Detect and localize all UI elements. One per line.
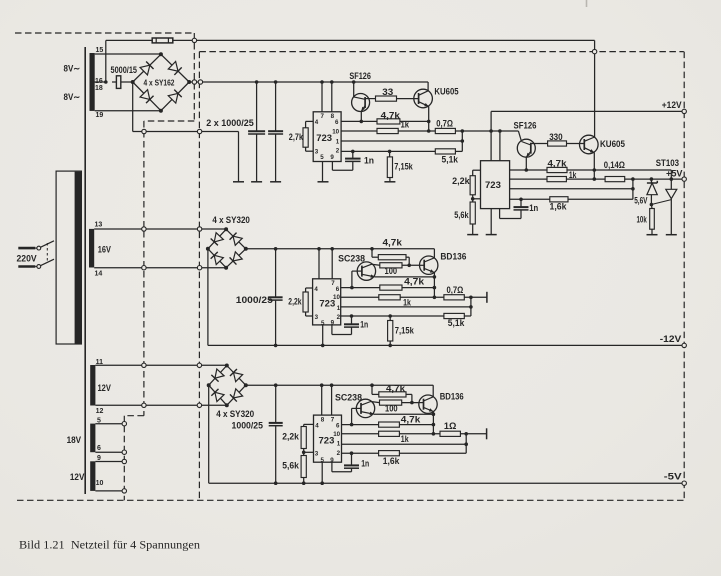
- resistor R26 100: [371, 400, 402, 405]
- svg-text:15: 15: [96, 47, 104, 54]
- wire +12V branch: [491, 111, 684, 131]
- wire U2 sense line: [510, 179, 635, 191]
- wire U1 pin4 left: [306, 121, 314, 127]
- wire U2 pin10 line: [510, 178, 547, 180]
- svg-text:SC238: SC238: [338, 254, 365, 264]
- wire tap 19 to bridge: [95, 110, 161, 112]
- label 4,7k R28: [401, 415, 421, 425]
- svg-text:4,7k: 4,7k: [401, 415, 421, 425]
- svg-text:4 x SY320: 4 x SY320: [212, 215, 250, 225]
- svg-text:4,7k: 4,7k: [381, 111, 400, 121]
- wire 1k to 1ohm: [399, 433, 440, 435]
- print artifact mark: [586, 0, 588, 7]
- wire 1.6k corner up D: [399, 434, 466, 453]
- capacitor C3 1n: [345, 150, 361, 162]
- svg-text:18V: 18V: [67, 435, 82, 445]
- resistor R10 330: [548, 141, 567, 146]
- svg-text:2,2k: 2,2k: [288, 297, 301, 307]
- transistor Q5 SC238: [352, 262, 376, 288]
- bridge 2 diode D8: [230, 252, 243, 265]
- transistor Q2 KU605: [397, 82, 433, 122]
- label 12V winding: [98, 383, 112, 393]
- bridge 1 diode D3 (left-bottom edge): [140, 90, 153, 103]
- resistor R22 5.1k: [444, 313, 464, 318]
- resistor R2 33: [376, 96, 397, 101]
- label 18V: [67, 435, 82, 445]
- connector circle tap9: [122, 459, 126, 463]
- svg-text:14: 14: [95, 271, 103, 278]
- resistor R21 0.7ohm: [444, 295, 464, 300]
- switch coupling dashed link: [46, 243, 48, 263]
- label 0,14&#937; R13: [604, 160, 625, 170]
- resistor R15 10k: [650, 205, 655, 235]
- svg-text:1000/25: 1000/25: [236, 295, 273, 305]
- wire minus rail section1: [133, 131, 239, 133]
- wire minus rail to common: [238, 132, 240, 182]
- resistor R12 1k: [547, 177, 566, 182]
- svg-text:7: 7: [331, 280, 335, 287]
- svg-text:1k: 1k: [401, 120, 410, 130]
- resistor R6 5.1k: [435, 149, 455, 154]
- wire R27 drop to base: [406, 394, 414, 404]
- label tap 5: [97, 417, 101, 424]
- capacitor C8 1n: [344, 451, 359, 468]
- wire U3 pin1 line: [341, 305, 473, 309]
- label -5V: [664, 472, 682, 482]
- wire R18 drop to base: [406, 257, 411, 267]
- label 1,6k R14: [550, 202, 567, 212]
- wire fuse line left: [106, 39, 152, 41]
- label tap 11: [96, 359, 104, 366]
- svg-text:5,1k: 5,1k: [448, 318, 465, 328]
- label +5V: [666, 168, 683, 178]
- svg-text:8: 8: [331, 113, 335, 120]
- wire bridge2 plus drop: [207, 249, 209, 346]
- svg-text:100: 100: [385, 404, 398, 414]
- label 330 R10: [549, 132, 563, 142]
- bridge rectifier 2 4xSY320 frame: [206, 227, 248, 269]
- resistor R20 1k: [379, 295, 400, 300]
- wire output line reg A: [455, 129, 518, 133]
- svg-text:1: 1: [337, 441, 341, 448]
- secondary winding 12V-2 bar: [90, 461, 95, 491]
- wire U4 pin4 left: [304, 424, 314, 426]
- 220V input stubs: [18, 248, 35, 266]
- label SC238 Q5: [338, 254, 365, 264]
- label 5,6k R25: [282, 461, 299, 471]
- svg-text:6: 6: [336, 286, 340, 293]
- wire U2 pin4 left: [473, 170, 481, 176]
- svg-text:4 x SY320: 4 x SY320: [216, 409, 254, 419]
- resistor R14 1.6k: [550, 197, 568, 202]
- wire 1k to 0.7ohm: [398, 130, 435, 132]
- resistor R16 2.2k: [303, 292, 308, 312]
- svg-text:0,14Ω: 0,14Ω: [604, 160, 625, 170]
- wire 4.7k top feed L 3: [372, 385, 379, 394]
- common T-bar R7: [384, 181, 395, 183]
- svg-text:8V∼: 8V∼: [64, 92, 81, 102]
- label 33: [382, 87, 393, 97]
- bridge rectifier 3 4xSY320 frame: [207, 364, 248, 408]
- wire -5V rail: [209, 481, 685, 485]
- capacitor C1 1000/25: [248, 80, 265, 182]
- feedthrough circles tap12: [142, 403, 202, 407]
- svg-text:723: 723: [485, 180, 501, 191]
- wire IC4 supply pins: [322, 385, 332, 415]
- wire tap 15 to bridge: [95, 53, 161, 55]
- wire U3 pin9 hook: [332, 325, 352, 335]
- capacitor C5 1000/25: [269, 249, 283, 347]
- connector circle tap6: [122, 450, 126, 454]
- wire tap 9: [95, 461, 124, 463]
- wire U4 pin5 ground: [321, 462, 323, 483]
- label U3 723: [319, 299, 335, 310]
- label +12V: [662, 100, 682, 110]
- resistor R25 5.6k: [301, 452, 306, 483]
- resistor R1 2.7k: [303, 128, 308, 147]
- svg-text:2,2k: 2,2k: [282, 432, 299, 442]
- label 4,7k R19: [404, 277, 424, 287]
- resistor R24 2.2k: [301, 427, 306, 449]
- label tap 13: [95, 222, 103, 229]
- feedthrough circles plus rail: [192, 80, 202, 84]
- wire 4.7k top feed L: [372, 249, 378, 257]
- capacitor C6 1n: [344, 314, 359, 327]
- wire IC1 pin8 supply: [330, 80, 334, 112]
- fuse F1: [152, 38, 173, 43]
- svg-text:10: 10: [333, 294, 340, 301]
- resistor R28 4.7k: [379, 422, 400, 427]
- label 2,2k R24: [282, 432, 299, 442]
- wire base node to Q6: [402, 264, 420, 266]
- bridge 1 diode D4 (bottom-right edge): [168, 90, 181, 103]
- svg-text:13: 13: [95, 222, 103, 229]
- transistor Q3 SF126: [517, 131, 547, 170]
- wire 1.6k corner up: [568, 189, 633, 200]
- wire 1k to 0.14ohm: [566, 178, 605, 180]
- wire bridge1 minus drop: [132, 82, 134, 132]
- svg-text:-12V: -12V: [660, 334, 682, 344]
- bridge 2 diode D6: [230, 233, 243, 246]
- svg-text:5,6k: 5,6k: [282, 461, 299, 471]
- svg-text:KU605: KU605: [600, 139, 625, 149]
- svg-text:4: 4: [315, 422, 319, 429]
- enclosure dashed border jog at taps: [124, 416, 144, 501]
- label 10k R15: [637, 215, 647, 225]
- svg-text:7: 7: [331, 417, 335, 424]
- common T-bar minus rail: [233, 181, 244, 183]
- wire taps 16/18 junction: [94, 80, 107, 84]
- enclosure dashed border outer jog vertical: [193, 33, 195, 121]
- feedthrough circle fuse drop: [592, 49, 596, 53]
- label 1k R29: [401, 434, 409, 444]
- transistor Q1 SF126: [352, 80, 376, 121]
- label 1n C8: [361, 459, 369, 469]
- label 8V~ upper: [64, 64, 81, 74]
- feedthrough circles tap14: [142, 266, 202, 270]
- label 0,7&#937; R21: [447, 285, 464, 295]
- svg-text:4: 4: [315, 119, 319, 126]
- transformer primary winding: [56, 171, 81, 344]
- common bar output D: [486, 428, 488, 439]
- wire U3 pin6 line: [341, 286, 380, 290]
- label 5,6V: [634, 196, 647, 206]
- label tap 6: [97, 445, 101, 452]
- svg-text:16V: 16V: [98, 244, 111, 254]
- enclosure dashed border bottom: [17, 499, 684, 501]
- label SC238 Q7: [335, 393, 362, 403]
- common T-bar R9: [467, 234, 478, 236]
- common bar output C: [486, 292, 488, 303]
- svg-text:18: 18: [95, 85, 103, 92]
- transistor Q7 SC238: [352, 399, 375, 424]
- label SF126 Q3: [514, 121, 537, 131]
- terminal +12V: [682, 109, 686, 113]
- svg-text:+12V: +12V: [662, 100, 682, 110]
- wire U4 pin6 line: [342, 423, 379, 427]
- wire tap 5: [95, 423, 124, 425]
- wire R28 to emitter node: [399, 424, 433, 426]
- label 2,2k R16: [288, 297, 301, 307]
- label 4,7k R27: [386, 384, 405, 394]
- resistor R9 5.6k: [470, 199, 475, 224]
- switch S1 pole 2: [35, 259, 54, 268]
- label tap 12: [96, 408, 104, 415]
- wire IC3 supply pins: [319, 249, 332, 279]
- op-amp U3 723 body: [313, 279, 341, 325]
- wire R19 to emitter node: [402, 287, 434, 289]
- wire emitter node down: [427, 121, 431, 132]
- svg-text:7: 7: [321, 113, 325, 120]
- svg-text:5000/15: 5000/15: [111, 65, 138, 75]
- svg-text:723: 723: [319, 436, 335, 447]
- label BD136 Q8: [440, 392, 464, 402]
- label 12V lower winding: [70, 472, 85, 482]
- label tap 14: [95, 271, 103, 278]
- svg-text:5,6V: 5,6V: [634, 196, 647, 206]
- svg-text:10: 10: [332, 128, 339, 135]
- label ST103: [656, 158, 679, 168]
- label KU605 Q2: [434, 87, 458, 97]
- label SF126 Q1: [349, 71, 371, 81]
- U3 pin labels: [314, 280, 340, 327]
- resistor R31 1.6k: [379, 451, 400, 456]
- label 220V: [17, 253, 37, 263]
- wire U3 pin4 left: [306, 288, 313, 292]
- resistor R27 4.7k top: [379, 392, 406, 397]
- resistor R5 0.7ohm: [435, 128, 455, 133]
- svg-text:5,6k: 5,6k: [454, 210, 468, 220]
- svg-text:1,6k: 1,6k: [550, 202, 567, 212]
- svg-text:12: 12: [96, 408, 104, 415]
- svg-text:BD136: BD136: [440, 392, 464, 402]
- wire U1 pin9 hook: [332, 162, 352, 171]
- svg-text:6: 6: [335, 119, 339, 126]
- label 4 x SY320 bridge2: [212, 215, 250, 225]
- feedthrough circles tap13: [142, 227, 202, 231]
- resistor R13 0.14ohm: [605, 177, 625, 182]
- svg-text:10k: 10k: [637, 215, 647, 225]
- label BD136 Q6: [440, 252, 466, 262]
- svg-text:+5V: +5V: [666, 168, 683, 178]
- svg-text:220V: 220V: [17, 253, 37, 263]
- svg-text:7,15k: 7,15k: [395, 326, 414, 336]
- label U1 723: [316, 133, 332, 144]
- svg-text:1000/25: 1000/25: [232, 421, 264, 431]
- resistor R3 4.7k: [377, 119, 400, 124]
- secondary winding 12V bar: [90, 365, 95, 406]
- connector circle tap10: [122, 489, 126, 493]
- wire 1k to 0.7ohm sect2: [400, 296, 444, 298]
- label 7,15k R7: [394, 162, 413, 172]
- label 4,7k R18: [383, 238, 403, 248]
- common T-bar R15: [647, 234, 658, 236]
- wire feed line section3: [246, 383, 433, 387]
- wire U4 pin2 line: [342, 452, 379, 454]
- wire IC2 supply pins: [491, 131, 500, 161]
- enclosure dashed border inner left vertical B: [198, 52, 200, 501]
- svg-text:330: 330: [549, 132, 563, 142]
- label KU605 Q4: [600, 139, 625, 149]
- wire tap 10: [95, 490, 124, 492]
- svg-text:3: 3: [315, 149, 319, 156]
- wire Q6 emitter down: [433, 273, 437, 300]
- svg-text:9: 9: [330, 154, 334, 161]
- svg-text:12V: 12V: [70, 472, 85, 482]
- wire U3 pin10 line: [341, 296, 379, 298]
- wire U1 pin1 line: [341, 139, 464, 143]
- label 1k R20: [403, 298, 411, 308]
- resistor R23 7.15k: [388, 316, 393, 345]
- label 4,7k R11: [548, 159, 567, 169]
- wire U1 pin3 left: [306, 147, 314, 151]
- wire U2 pin3: [471, 195, 481, 201]
- svg-text:SC238: SC238: [335, 393, 362, 403]
- resistor R19 4.7k: [380, 285, 402, 290]
- svg-text:-5V: -5V: [664, 472, 682, 482]
- wire tap 12: [95, 404, 226, 406]
- svg-text:12V: 12V: [98, 383, 112, 393]
- wire Q8 emitter down: [432, 412, 436, 436]
- svg-text:8: 8: [321, 417, 325, 424]
- enclosure dashed border left vertical A: [143, 121, 145, 416]
- svg-text:6: 6: [97, 445, 101, 452]
- svg-text:2: 2: [336, 147, 340, 154]
- wire tap 11: [95, 364, 226, 366]
- wire U4 pin3 left: [302, 449, 314, 455]
- wire fuse line right: [173, 39, 595, 41]
- common T-bar U2 pin5: [486, 234, 497, 236]
- op-amp U4 723 body: [314, 415, 342, 462]
- bridge rectifier 4xSY162 frame: [131, 52, 192, 112]
- label U2 723: [485, 180, 501, 191]
- wire U2 pin5 ground: [490, 209, 492, 235]
- svg-text:9: 9: [331, 320, 335, 327]
- bridge 3 diode D12: [230, 389, 243, 402]
- svg-text:100: 100: [385, 266, 398, 276]
- resistor R7 7.15k: [387, 151, 392, 181]
- wire U2 pin6 line: [510, 168, 547, 172]
- svg-text:SF126: SF126: [514, 121, 537, 131]
- caption Bild 1.21: [19, 539, 200, 552]
- terminal -12V: [682, 343, 686, 347]
- svg-text:4,7k: 4,7k: [386, 384, 405, 394]
- svg-text:2,7k: 2,7k: [289, 132, 303, 142]
- wire U1 pin10 line: [341, 130, 377, 132]
- transistor Q6 BD136: [420, 256, 438, 274]
- svg-text:2: 2: [337, 450, 341, 457]
- label 1n U1: [364, 156, 374, 166]
- wire U3 pin2 line: [341, 314, 444, 318]
- svg-text:0,7Ω: 0,7Ω: [436, 119, 453, 129]
- resistor R30 1ohm: [440, 431, 460, 436]
- wire U3 pin5 ground: [322, 325, 324, 346]
- secondary winding 18V bar: [90, 424, 95, 453]
- label 4 x SY320 bridge3: [216, 409, 254, 419]
- svg-text:33: 33: [382, 87, 393, 97]
- wire R9 to common: [472, 224, 474, 235]
- secondary winding 16V bar: [89, 229, 94, 268]
- svg-text:1n: 1n: [364, 156, 374, 166]
- svg-text:723: 723: [316, 133, 332, 144]
- svg-text:4: 4: [314, 286, 318, 293]
- svg-text:7,15k: 7,15k: [394, 162, 413, 172]
- svg-text:10: 10: [96, 480, 104, 487]
- label 5,1k R22: [448, 318, 465, 328]
- enclosure dashed border inner top: [199, 51, 683, 53]
- op-amp U1 723 body: [313, 112, 341, 162]
- wire R11 to emitter node: [567, 168, 596, 172]
- wire 5.1k corner up: [455, 131, 462, 151]
- wire +5V line: [625, 177, 685, 181]
- svg-text:2: 2: [337, 314, 341, 321]
- svg-text:SF126: SF126: [349, 71, 371, 81]
- svg-text:5,1k: 5,1k: [442, 155, 459, 165]
- label tap 16: [95, 78, 103, 85]
- svg-text:1: 1: [337, 305, 341, 312]
- thyristor ST103: [651, 179, 676, 235]
- svg-text:1Ω: 1Ω: [444, 421, 457, 431]
- common T-bar C1: [251, 181, 262, 183]
- wire tap 6: [95, 451, 124, 453]
- U1 pin labels: [315, 113, 340, 161]
- svg-text:2 x 1000/25: 2 x 1000/25: [206, 118, 254, 128]
- label 1n C4: [529, 203, 538, 213]
- label 4,7k R3: [381, 111, 400, 121]
- svg-text:4,7k: 4,7k: [383, 238, 403, 248]
- svg-text:1n: 1n: [360, 320, 368, 330]
- resistor R8 2.2k: [470, 176, 475, 195]
- terminal -5V: [682, 481, 686, 485]
- connector circle tap5: [122, 422, 126, 426]
- svg-text:Bild 1.21 Netzteil für 4 Span: Bild 1.21 Netzteil für 4 Spannungen: [19, 539, 200, 552]
- transistor Q4 KU605: [567, 40, 599, 170]
- label 1k R4: [401, 120, 410, 130]
- svg-text:9: 9: [97, 455, 101, 462]
- feedthrough circles minus rail: [142, 129, 202, 133]
- label 1000/25 C7: [232, 421, 264, 431]
- svg-text:1k: 1k: [401, 434, 409, 444]
- enclosure dashed border outer jog horizontal: [144, 120, 194, 122]
- common T-bar thyristor: [666, 234, 677, 236]
- capacitor C7 1000/25: [269, 385, 283, 485]
- resistor R18 4.7k top: [378, 255, 406, 260]
- svg-text:3: 3: [315, 314, 319, 321]
- wire U2 pin2 line: [510, 198, 550, 202]
- label 1,6k R31: [383, 456, 400, 466]
- label 1000/25 C5: [236, 295, 273, 305]
- wire U4 pin9 hook: [332, 462, 352, 472]
